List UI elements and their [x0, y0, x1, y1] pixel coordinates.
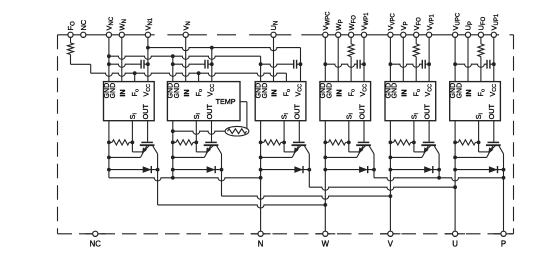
svg-text:P: P: [501, 240, 506, 249]
svg-text:NC: NC: [90, 240, 102, 249]
svg-text:IN: IN: [118, 89, 127, 96]
svg-text:OUT: OUT: [293, 103, 302, 119]
svg-text:TEMP: TEMP: [216, 97, 236, 106]
svg-text:V: V: [388, 240, 394, 249]
svg-text:OUT: OUT: [487, 103, 496, 119]
svg-text:GND: GND: [327, 83, 334, 99]
svg-text:GND: GND: [174, 83, 181, 99]
svg-text:IN: IN: [400, 89, 409, 96]
svg-text:GND: GND: [110, 83, 117, 99]
svg-text:OUT: OUT: [141, 103, 150, 119]
svg-text:U: U: [452, 240, 458, 249]
svg-text:IN: IN: [182, 89, 191, 96]
svg-text:NC: NC: [79, 19, 88, 30]
svg-text:IN: IN: [464, 89, 473, 96]
svg-text:OUT: OUT: [423, 103, 432, 119]
svg-text:IN: IN: [270, 89, 279, 96]
svg-text:GND: GND: [392, 83, 399, 99]
svg-text:GND: GND: [262, 83, 269, 99]
svg-text:GND: GND: [456, 83, 463, 99]
svg-text:IN: IN: [334, 89, 343, 96]
svg-text:W: W: [322, 240, 330, 249]
svg-text:N: N: [258, 240, 264, 249]
svg-text:OUT: OUT: [205, 103, 214, 119]
svg-text:OUT: OUT: [357, 103, 366, 119]
